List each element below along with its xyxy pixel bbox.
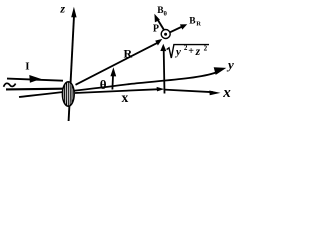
svg-text:θ: θ (164, 10, 168, 17)
svg-text:2: 2 (204, 44, 208, 52)
svg-text:y: y (226, 57, 234, 72)
svg-text:B: B (189, 17, 196, 27)
svg-text:y: y (174, 46, 181, 58)
svg-text:z: z (195, 46, 201, 58)
svg-text:x: x (122, 90, 129, 105)
svg-text:θ: θ (100, 77, 107, 92)
svg-text:R: R (196, 21, 201, 28)
svg-text:z: z (59, 2, 65, 16)
svg-text:I: I (25, 61, 29, 73)
svg-text:R: R (124, 46, 133, 60)
svg-text:+: + (188, 46, 194, 57)
svg-text:x: x (222, 85, 231, 101)
svg-text:P: P (153, 23, 159, 34)
